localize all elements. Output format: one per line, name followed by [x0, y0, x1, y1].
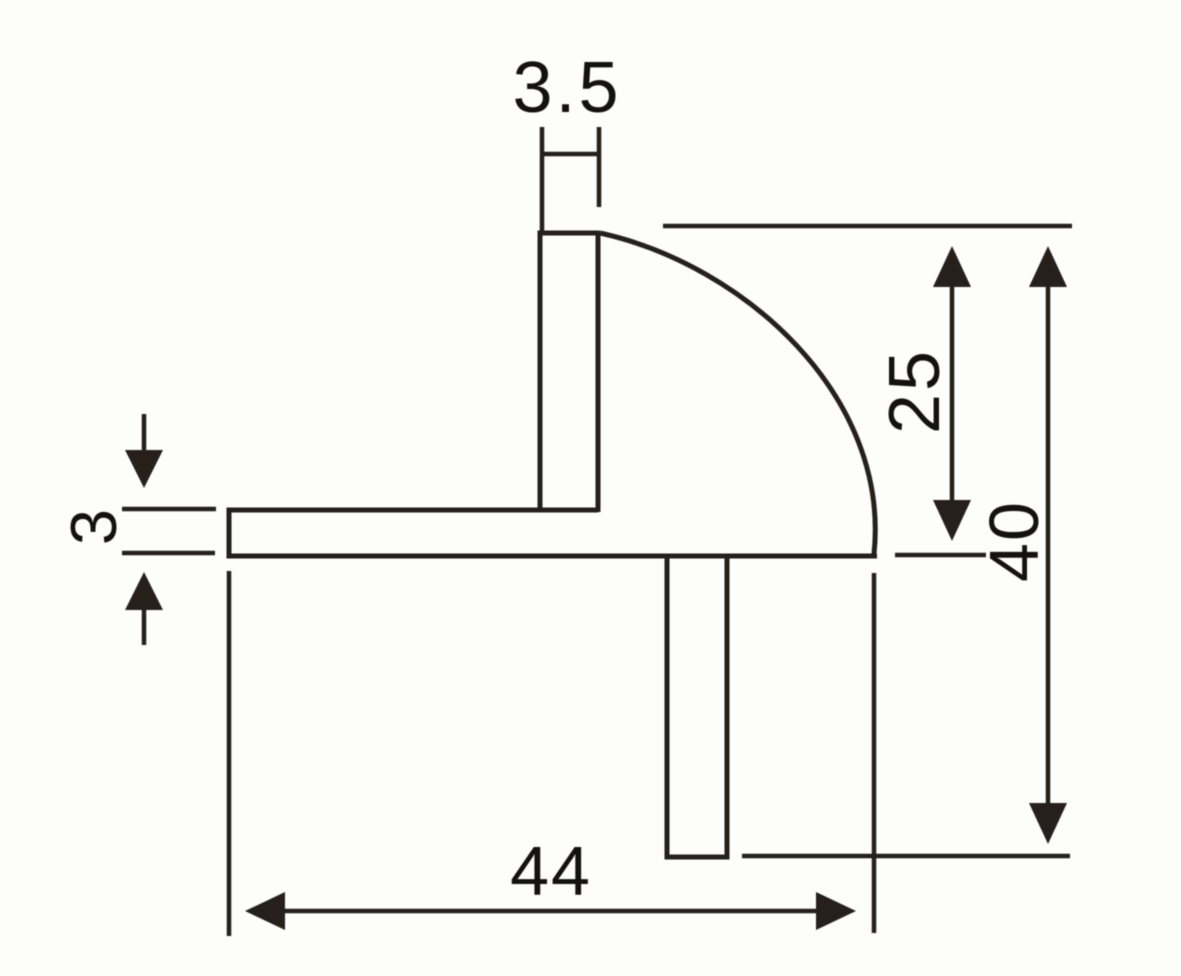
svg-text:25: 25 — [875, 348, 955, 434]
svg-text:40: 40 — [975, 500, 1053, 582]
svg-text:44: 44 — [510, 832, 592, 910]
svg-text:3: 3 — [57, 507, 130, 545]
svg-text:3.5: 3.5 — [512, 48, 621, 128]
